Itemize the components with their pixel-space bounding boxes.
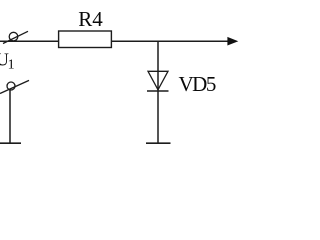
label VD5 (179, 72, 216, 96)
resistor R4 (59, 31, 112, 48)
label R4 (78, 7, 103, 31)
terminal: input clamp top (circle with slash) (3, 31, 28, 43)
terminal: input clamp bottom (circle with slash) (0, 80, 29, 93)
arrow: output (228, 38, 237, 45)
svg-text:R4: R4 (78, 7, 103, 31)
wire: junction vertical to diode and bottom (157, 41, 159, 143)
wire: bottom right stub (146, 142, 171, 144)
svg-text:1: 1 (8, 58, 15, 73)
label U1 (0, 50, 15, 73)
wire: bottom left stub (0, 142, 21, 144)
wire: input top rail (0, 40, 59, 42)
wire: lower branch vertical (9, 90, 11, 143)
diode VD5 (147, 71, 169, 91)
svg-text:VD5: VD5 (179, 72, 216, 96)
wire: R4 to output arrow (111, 40, 229, 42)
